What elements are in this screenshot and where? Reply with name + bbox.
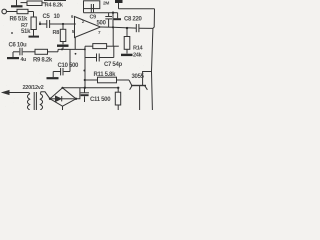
svg-text:C10 500: C10 500	[58, 63, 80, 69]
svg-text:R14: R14	[133, 46, 144, 52]
svg-text:24k: 24k	[133, 53, 143, 59]
svg-text:3055: 3055	[132, 74, 145, 80]
svg-text:R7: R7	[21, 23, 28, 29]
svg-text:500: 500	[97, 20, 107, 26]
svg-text:4u: 4u	[21, 57, 27, 63]
svg-text:C6 10u: C6 10u	[9, 42, 28, 48]
svg-text:10: 10	[54, 14, 61, 20]
svg-text:R6 51k: R6 51k	[10, 17, 29, 23]
svg-text:C7 54p: C7 54p	[104, 62, 123, 68]
svg-text:C8 220: C8 220	[124, 16, 143, 22]
svg-text:C9: C9	[90, 14, 97, 20]
svg-text:R9 8.2k: R9 8.2k	[33, 58, 53, 64]
svg-text:R4 8.2k: R4 8.2k	[45, 3, 64, 9]
svg-text:2M: 2M	[103, 1, 109, 7]
svg-text:220/12v2: 220/12v2	[23, 85, 44, 91]
svg-text:C5: C5	[43, 14, 51, 20]
svg-text:R8: R8	[53, 30, 60, 36]
svg-text:R11 5.8k: R11 5.8k	[94, 72, 117, 78]
svg-text:51k: 51k	[21, 29, 31, 35]
svg-text:C11 500: C11 500	[90, 97, 111, 103]
